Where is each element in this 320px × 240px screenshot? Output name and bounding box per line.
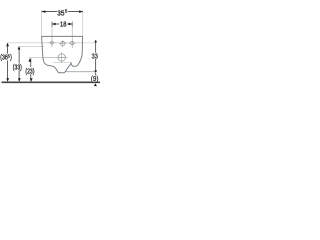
supply connection crosshair vertical bbox=[62, 40, 64, 47]
label (36.5) left bbox=[0, 53, 12, 62]
mounting hole right crosshair vertical bbox=[71, 38, 73, 48]
svg-text:35: 35 bbox=[57, 10, 64, 18]
floor line bbox=[2, 81, 101, 83]
arrowhead (23) top bbox=[29, 58, 32, 61]
label (23) left bbox=[25, 68, 35, 76]
dimension tick 18 right bbox=[71, 22, 73, 27]
arrowhead (33) top bbox=[18, 46, 21, 49]
extension line: vertical for 18 left bbox=[51, 22, 53, 39]
extension line: vertical for 35.5 right bbox=[82, 10, 84, 36]
label (33) left bbox=[12, 64, 22, 72]
label (9) right bbox=[90, 75, 99, 83]
dimension line (23) vertical left bbox=[30, 58, 32, 81]
label 35.5 top bbox=[57, 8, 68, 17]
dimension line (33) vertical left bbox=[18, 47, 20, 82]
arrowhead 33 top bbox=[94, 40, 97, 43]
arrowhead (36.5) top bbox=[6, 43, 9, 47]
label 33 right bbox=[91, 53, 98, 61]
inner faint line under drain boss y=62.4 bbox=[53, 61, 70, 63]
extension line: lower ceramic edge y=71.6 bbox=[65, 71, 97, 73]
arrowhead (36.5) bottom bbox=[6, 78, 9, 81]
dimension line 35.5 horizontal top bbox=[42, 11, 83, 13]
drain crosshair vertical bbox=[61, 52, 63, 62]
dimension line 18 horizontal bbox=[52, 23, 72, 25]
svg-text:18: 18 bbox=[60, 21, 67, 29]
WC pan rear-view outline bbox=[42, 36, 83, 72]
mounting hole right circle bbox=[71, 41, 74, 44]
svg-text:(36: (36 bbox=[0, 54, 8, 62]
svg-text:): ) bbox=[10, 54, 12, 62]
extension line: vertical for 35.5 left bbox=[40, 10, 42, 36]
supply connection circle top-center bbox=[61, 42, 65, 46]
svg-text:(23): (23) bbox=[25, 68, 34, 76]
extension line: hole centerline y=42.8 across full drawing bbox=[8, 42, 42, 44]
drain outlet circle bbox=[58, 54, 65, 61]
extension line: (23)/drain centerline y=57.8 bbox=[29, 57, 43, 59]
svg-text:(33): (33) bbox=[13, 64, 22, 72]
arrowhead 35.5 left bbox=[41, 10, 45, 13]
dimension line (36.5) vertical left bbox=[7, 43, 9, 81]
technical dimension drawing: wall-hung WC rear view bbox=[0, 0, 100, 100]
arrowhead 33/(9) middle bbox=[94, 70, 97, 73]
arrowhead (23) bottom bbox=[30, 78, 33, 81]
arrowhead 35.5 right bbox=[79, 10, 83, 13]
svg-text:33: 33 bbox=[92, 53, 99, 61]
svg-text:(9): (9) bbox=[91, 76, 99, 83]
arrowhead (33) bottom bbox=[18, 78, 21, 81]
dimension line 33/(9) vertical right bbox=[95, 42, 97, 75]
mounting hole left circle bbox=[51, 41, 54, 44]
arrowhead 18 left bbox=[52, 23, 56, 26]
dimension tick 18 left bbox=[51, 22, 53, 27]
extension line: vertical for 18 right bbox=[71, 22, 73, 39]
hole cross horizontals bbox=[48, 42, 56, 44]
mounting hole left crosshair vertical bbox=[51, 38, 53, 47]
extension line: (33) left reference y=46.4 bbox=[19, 45, 44, 47]
arrowhead (9) below floor bbox=[94, 83, 97, 86]
arrowhead 18 right bbox=[69, 23, 73, 26]
